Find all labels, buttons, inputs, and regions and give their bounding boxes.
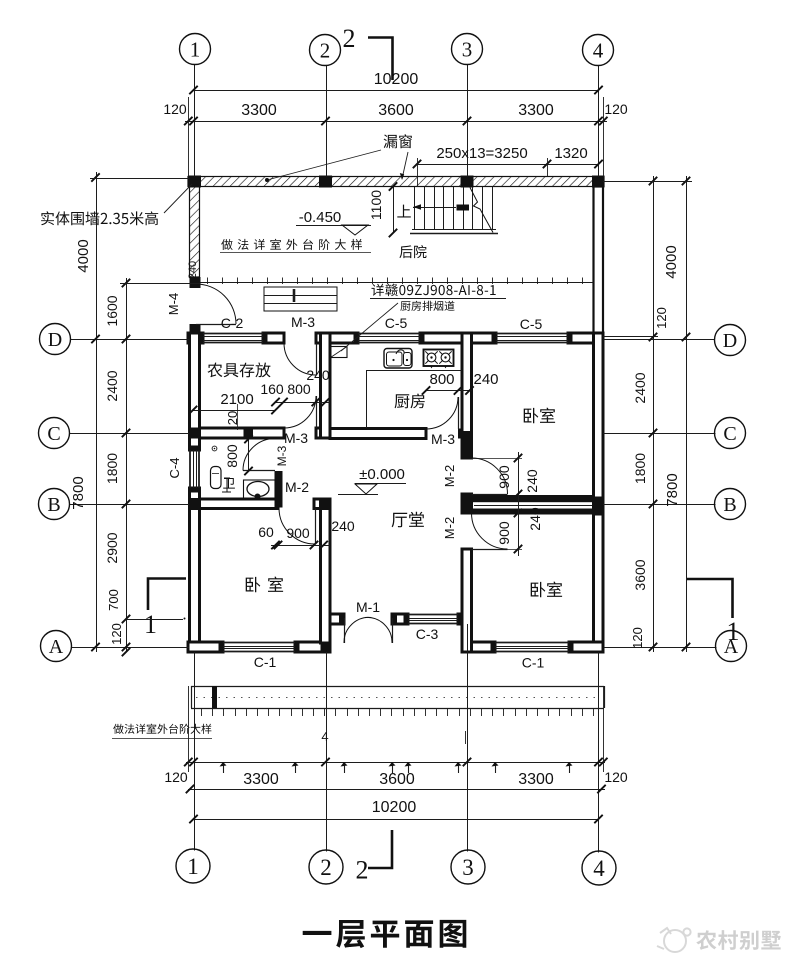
- door M-2 (NE bedroom): [472, 494, 508, 496]
- note 做法详室外台阶大样 (backyard): [221, 239, 362, 250]
- stair dimension 250x13=3250 / 1320: [417, 164, 599, 166]
- kitchen west wall / SW bedroom east wall (axis 2): [321, 333, 331, 438]
- axis line 3 top: [467, 65, 469, 177]
- svg-text:M-4: M-4: [166, 293, 181, 315]
- room label 卧室 NE: [524, 408, 555, 424]
- svg-text:120: 120: [604, 769, 628, 785]
- junction axis2-B: [320, 498, 331, 510]
- svg-text:B: B: [47, 494, 60, 516]
- row C wall (farm-room south / bathroom north): [200, 428, 285, 438]
- column axis3-D: [461, 332, 474, 344]
- axis bubble A right: [716, 631, 747, 662]
- dimension 800 vertical (bathroom door): [248, 439, 250, 471]
- axis bubble C left: [39, 418, 70, 449]
- svg-text:M-2: M-2: [442, 517, 457, 539]
- axis bubble D right: [715, 325, 746, 356]
- room label 卫: [223, 478, 235, 489]
- room label 卧室 SW: [246, 577, 283, 593]
- svg-text:900: 900: [496, 465, 512, 489]
- svg-text:1: 1: [144, 610, 157, 639]
- svg-text:B: B: [723, 494, 736, 516]
- stair section-cut black bar: [457, 205, 470, 211]
- kitchen south wall: [330, 429, 426, 439]
- axis line A left: [72, 647, 190, 649]
- svg-text:10200: 10200: [372, 799, 417, 816]
- svg-text:C-3: C-3: [416, 626, 439, 642]
- room label 农具存放: [208, 363, 271, 378]
- svg-text:800: 800: [224, 444, 240, 468]
- svg-text:C-5: C-5: [520, 316, 543, 332]
- title 一层平面图: [303, 920, 467, 948]
- dimension 900/240 (NE bedroom door): [518, 452, 520, 515]
- watermark logo: [657, 928, 691, 952]
- axis bubble 3 bottom: [451, 850, 485, 884]
- column axis4-D: [592, 332, 605, 344]
- dimension 900/240 (SE bedroom door): [518, 509, 520, 556]
- svg-text:3300: 3300: [241, 102, 277, 119]
- column axis1-B: [188, 498, 201, 510]
- fence wall (top, hatched) 实体围墙: [188, 177, 604, 187]
- rear door M-3 exterior steps: [264, 287, 337, 311]
- svg-text:800: 800: [287, 381, 311, 397]
- note 做法详室外台阶大样 (front apron): [113, 724, 211, 734]
- note 实体围墙2.35米高 with leader: [41, 211, 158, 225]
- svg-text:C: C: [47, 423, 60, 445]
- svg-text:3300: 3300: [243, 771, 279, 788]
- front apron dotted line: [196, 697, 600, 699]
- west exterior wall (axis 1): [190, 333, 200, 450]
- junction bedroomSW-east/A: [321, 642, 331, 653]
- corner block hallwall-bedroomSWeast: [321, 614, 331, 625]
- window C-1 (SW bedroom, south): [219, 642, 224, 652]
- left inner dimension line 1600/2400/1800/2900/700/120: [126, 278, 128, 652]
- window C-5 (kitchen, north): [354, 333, 359, 343]
- south wall row A - SE bedroom: [462, 642, 495, 652]
- room label 厨房: [395, 394, 425, 409]
- svg-text:240: 240: [473, 371, 498, 388]
- svg-text:2400: 2400: [632, 372, 648, 403]
- facade opening edge marks on bottom dim line: [223, 762, 225, 773]
- axis line C right: [603, 433, 716, 435]
- axis line 2 top: [326, 66, 328, 177]
- axis bubble 1 top: [180, 34, 211, 65]
- junction bedroomSE-west/A: [462, 642, 472, 653]
- dimension 1100 (backyard stair): [393, 187, 395, 234]
- door M-1 (main entry, double door): [344, 618, 346, 643]
- svg-text:4000: 4000: [75, 239, 92, 272]
- bottom dimension line 120/3300/3600/3300/120: [186, 762, 605, 764]
- fence column at axis 2: [319, 176, 332, 188]
- svg-text:3300: 3300: [518, 771, 554, 788]
- svg-text:240: 240: [306, 367, 330, 383]
- jamb M-1 left: [339, 614, 345, 624]
- svg-text:M-3: M-3: [275, 445, 289, 466]
- bathroom squat marker: [222, 478, 231, 492]
- axis line D left: [71, 339, 190, 341]
- axis bubble 1 bottom: [176, 849, 210, 883]
- north wall row D (axis D): [188, 333, 203, 343]
- kitchen counter edge: [366, 370, 462, 372]
- door M-2 (SE bedroom): [472, 549, 508, 551]
- fence wall east (double line): [594, 187, 604, 334]
- svg-text:2100: 2100: [220, 391, 253, 408]
- svg-text:C-1: C-1: [254, 654, 277, 670]
- svg-text:C: C: [723, 423, 736, 445]
- svg-text:M-3: M-3: [431, 431, 455, 447]
- svg-text:1: 1: [190, 37, 201, 61]
- right extension at fence top: [603, 181, 692, 183]
- right outer dimension line 4000/7800: [686, 176, 688, 652]
- svg-text:1: 1: [727, 617, 740, 646]
- section mark 1-1 right: [687, 579, 733, 618]
- svg-text:D: D: [723, 330, 737, 352]
- column axis1-D: [188, 332, 202, 344]
- wall stub below gate M-4: [190, 324, 201, 344]
- svg-text:10200: 10200: [374, 71, 419, 88]
- south wall row A - SW bedroom: [188, 642, 223, 652]
- junction C-kitchenwest: [320, 428, 332, 439]
- svg-text:160: 160: [260, 381, 284, 397]
- apron side edges and joint bar: [191, 686, 193, 708]
- svg-text:3600: 3600: [379, 771, 415, 788]
- axis bubble 2 bottom: [309, 850, 343, 884]
- svg-text:M-2: M-2: [285, 479, 309, 495]
- svg-text:240: 240: [187, 261, 199, 279]
- axis bubble B left: [39, 489, 70, 520]
- toilet: [247, 482, 269, 497]
- svg-text:3600: 3600: [378, 102, 414, 119]
- row B wall left (bathroom south / SW bedroom north): [200, 499, 279, 509]
- svg-text:M-3: M-3: [284, 430, 308, 446]
- svg-text:C-4: C-4: [167, 458, 182, 479]
- column axis4-A: [592, 641, 605, 653]
- fence column at axis 4: [592, 176, 605, 188]
- svg-text:120: 120: [109, 623, 124, 645]
- text 上 (up): [397, 205, 411, 218]
- svg-text:1800: 1800: [104, 453, 120, 484]
- axis line B right: [603, 504, 716, 506]
- svg-text:60: 60: [258, 524, 274, 540]
- axis line 1 top: [194, 65, 196, 177]
- axis bubble 2 top: [310, 35, 341, 66]
- bottom dimension middle line: [188, 789, 605, 791]
- svg-text:3600: 3600: [632, 559, 648, 590]
- svg-text:M-3: M-3: [291, 314, 315, 330]
- backyard terrace edge line with ticks: [200, 282, 594, 284]
- text 后院 (backyard): [399, 245, 426, 258]
- svg-text:4: 4: [321, 729, 328, 744]
- window C-3 (hall, south): [404, 614, 409, 624]
- axis bubble D left: [40, 324, 71, 355]
- door M-3 (bathroom, east wall): [243, 470, 275, 472]
- kitchen sink: [384, 349, 412, 369]
- column axis1-C: [188, 428, 201, 439]
- dimension 800/240 (kitchen door): [426, 390, 472, 392]
- svg-text:800: 800: [429, 371, 454, 388]
- left outer dimension line 4000/7800: [96, 172, 98, 652]
- svg-text:4: 4: [593, 38, 604, 62]
- svg-text:4000: 4000: [663, 245, 680, 278]
- svg-text:C-1: C-1: [522, 655, 545, 671]
- section mark 2-2 bottom: [368, 830, 392, 868]
- svg-text:900: 900: [286, 525, 310, 541]
- bathroom east wall pier: [275, 471, 283, 508]
- svg-text:120: 120: [163, 101, 187, 117]
- watermark text 农村别墅: [696, 930, 781, 950]
- svg-text:C-2: C-2: [221, 315, 244, 331]
- kitchen stove: [424, 350, 454, 367]
- door M-3 (kitchen, south wall): [458, 397, 460, 429]
- door M-3 (farm room rear exterior door): [316, 343, 318, 375]
- column axis2-D: [319, 332, 332, 344]
- window C-1 (SE bedroom, south): [491, 642, 496, 652]
- svg-text:4: 4: [593, 856, 605, 881]
- kitchen flue shaft 烟道: [331, 347, 348, 358]
- svg-text:240: 240: [331, 518, 355, 534]
- note 详赣09ZJ908-AI-8-1 (flue detail): [372, 284, 496, 297]
- top dimension line 120/3300/3600/3300/120: [185, 121, 607, 123]
- toilet niche: [244, 480, 276, 500]
- svg-text:1600: 1600: [104, 295, 120, 326]
- door M-2 (SW bedroom, row B wall): [315, 509, 317, 545]
- svg-text:2900: 2900: [104, 532, 120, 563]
- bathroom wash basin: [211, 467, 222, 489]
- svg-text:D: D: [48, 329, 62, 351]
- svg-text:250x13=3250: 250x13=3250: [436, 145, 527, 162]
- svg-text:2: 2: [320, 38, 331, 62]
- svg-text:3: 3: [462, 37, 473, 61]
- fence column at axis 1: [188, 176, 201, 188]
- fence column at axis 3: [461, 176, 474, 188]
- svg-text:120: 120: [164, 769, 188, 785]
- exterior stair (backyard) treads: [414, 187, 416, 229]
- svg-text:2: 2: [343, 24, 356, 53]
- window C-2 (farm room, north): [199, 333, 204, 343]
- bathroom floor drain: [212, 446, 217, 451]
- svg-text:7800: 7800: [70, 476, 87, 509]
- dimension 2100 (bathroom width): [193, 410, 276, 412]
- note 厨房排烟道: [400, 301, 454, 311]
- window C-4 (bathroom, west wall): [190, 446, 200, 451]
- top dimension line 10200: [194, 90, 599, 92]
- axis bubble 4 bottom: [582, 851, 616, 885]
- right inner dimension line 120/2400/1800/3600/120: [653, 176, 655, 652]
- svg-text:±0.000: ±0.000: [359, 466, 405, 483]
- column axis1-A: [188, 641, 202, 653]
- section mark 1-1 left: [148, 579, 186, 611]
- svg-text:120: 120: [630, 627, 645, 649]
- svg-text:700: 700: [106, 589, 121, 611]
- room label 卧室 SE: [531, 582, 562, 598]
- left extension at terrace line: [120, 283, 200, 285]
- axis line 2 bottom: [326, 652, 328, 852]
- axis line 4 top: [598, 66, 600, 177]
- bottom dimension line 10200: [194, 819, 599, 821]
- svg-text:240: 240: [524, 469, 540, 493]
- section mark 2-2 top: [368, 38, 393, 81]
- east exterior wall (axis 4): [594, 333, 604, 652]
- svg-text:3: 3: [462, 855, 474, 880]
- svg-text:A: A: [49, 636, 64, 658]
- dark block on wall C: [244, 429, 254, 438]
- svg-text:C-5: C-5: [385, 315, 408, 331]
- apron tick marks: [201, 708, 203, 716]
- svg-text:7800: 7800: [664, 473, 681, 506]
- svg-text:120: 120: [654, 307, 669, 329]
- dimension 160/800/240 (farm room door): [276, 402, 331, 404]
- window C-5 (NE bedroom, north): [492, 333, 497, 343]
- axis line 4 bottom: [598, 652, 600, 853]
- svg-text:900: 900: [496, 521, 512, 545]
- kitchen east / right bedrooms west wall (axis 3): [462, 333, 472, 458]
- left extension at hall wall: [126, 619, 183, 621]
- svg-text:3300: 3300: [518, 102, 554, 119]
- svg-text:1800: 1800: [632, 453, 648, 484]
- stair break line: [470, 188, 493, 233]
- svg-text:240: 240: [527, 507, 543, 531]
- front apron top edge: [191, 686, 604, 688]
- svg-text:1100: 1100: [368, 190, 384, 220]
- axis bubble C right: [715, 418, 746, 449]
- axis bubble 4 top: [583, 35, 614, 66]
- kitchen door jamb stub: [458, 429, 472, 439]
- top extension lines: [188, 97, 190, 177]
- column axis4-B: [593, 497, 605, 516]
- front apron bottom edge: [191, 708, 604, 710]
- dimension 60/900/240 (SW bedroom door): [271, 545, 330, 547]
- svg-text:M-2: M-2: [442, 465, 457, 487]
- gate pier west (black): [190, 277, 201, 288]
- svg-text:-0.450: -0.450: [299, 209, 342, 226]
- axis bubble 3 top: [452, 34, 483, 65]
- right extension at D wall: [603, 336, 658, 338]
- stair bottom stringer (double line): [412, 229, 496, 231]
- axis line B left: [70, 504, 190, 506]
- right double wall at row B (NE/SE bedroom separation): [472, 495, 594, 502]
- left extension at fence: [90, 178, 190, 180]
- axis line C left: [70, 433, 190, 435]
- jamb M-1 right: [392, 614, 398, 624]
- svg-text:120: 120: [604, 101, 628, 117]
- svg-text:2400: 2400: [104, 370, 120, 401]
- note 漏窗 with leaders: [384, 134, 412, 148]
- door M-3 (farm room to hall, wall C): [316, 396, 318, 428]
- svg-text:1: 1: [187, 854, 199, 879]
- door M-4 (gate in west fence wall): [196, 324, 236, 326]
- axis bubble A left: [41, 631, 72, 662]
- svg-text:M-1: M-1: [356, 599, 380, 615]
- room label 厅堂: [392, 512, 424, 528]
- axis line 1 bottom: [194, 652, 196, 851]
- axis line A right: [604, 647, 717, 649]
- fence wall west (hatched vertical): [190, 187, 200, 278]
- axis line 3 bottom: [467, 624, 469, 852]
- hall south wall (entry, recessed): [330, 614, 344, 624]
- stair up arrow: [413, 207, 456, 209]
- svg-text:1320: 1320: [554, 145, 587, 162]
- axis line D right: [603, 339, 715, 341]
- axis bubble B right: [715, 489, 746, 520]
- svg-text:2: 2: [356, 856, 369, 885]
- svg-text:2: 2: [320, 855, 332, 880]
